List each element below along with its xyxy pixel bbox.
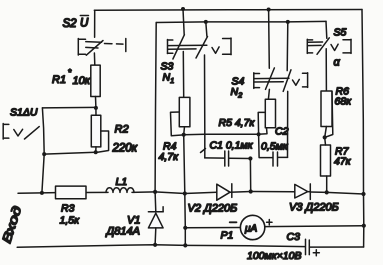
wire to S1 xyxy=(42,106,96,109)
node S4 top xyxy=(267,8,271,12)
wire R5 bottom xyxy=(259,128,267,135)
svg-text:68к: 68к xyxy=(335,96,353,108)
node V1 bottom xyxy=(153,243,157,247)
node right rail diode xyxy=(361,192,365,196)
svg-text:220к: 220к xyxy=(112,143,138,155)
label R7 47k xyxy=(334,146,352,168)
svg-text:4,7к: 4,7к xyxy=(159,151,180,163)
svg-text:Вход: Вход xyxy=(0,204,24,245)
node R2 bottom xyxy=(94,150,98,154)
resistor R6 xyxy=(321,91,332,127)
svg-text:Р1: Р1 xyxy=(221,230,234,242)
svg-text:100мк×10В: 100мк×10В xyxy=(247,250,302,262)
label V1 D814A xyxy=(105,215,141,238)
wire R4 tap xyxy=(171,112,184,136)
wire C3 right link xyxy=(310,246,364,248)
svg-text:S5: S5 xyxy=(334,27,347,39)
switch S4 xyxy=(254,10,308,92)
switch S1 xyxy=(3,124,39,140)
wire S1 vertical xyxy=(42,108,44,193)
switch S3 xyxy=(168,9,232,59)
wire R7 bottom xyxy=(326,176,328,192)
label plus C3 xyxy=(313,250,319,256)
wire R7 top xyxy=(324,137,327,145)
inductor L1 xyxy=(106,188,134,193)
svg-text:С3: С3 xyxy=(287,231,301,243)
svg-text:0,5мк: 0,5мк xyxy=(261,141,289,153)
node S3 top xyxy=(181,7,185,11)
capacitor C1 xyxy=(205,151,251,166)
svg-text:С1 0,1мк: С1 0,1мк xyxy=(210,140,254,152)
node meter wire xyxy=(183,226,187,230)
wire node to C2 xyxy=(259,134,273,157)
capacitor C2 xyxy=(273,91,288,166)
label R6 68k xyxy=(335,86,353,108)
wire R1 bottom xyxy=(95,97,97,108)
label R1*10k xyxy=(52,68,91,88)
wire right rail xyxy=(362,10,364,248)
node bottom rail xyxy=(183,243,187,247)
wire S3 right pole down xyxy=(206,22,207,36)
wire L1 to node xyxy=(132,191,155,194)
svg-text:R5 4,7к: R5 4,7к xyxy=(219,117,256,129)
wire S3 left pole to R4 xyxy=(182,52,184,98)
zener V1 xyxy=(148,192,163,245)
label S3 N1 xyxy=(161,61,175,86)
resistor R2 xyxy=(91,115,101,147)
wire V2 node to V3 xyxy=(251,191,295,193)
node R6-R7 xyxy=(323,135,327,139)
node R5 bottom xyxy=(257,132,261,136)
node S3 second bus xyxy=(204,20,208,24)
wire R2 hook xyxy=(98,131,109,152)
svg-text:1,5к: 1,5к xyxy=(60,215,81,227)
svg-text:N1: N1 xyxy=(163,72,175,86)
node input xyxy=(40,191,44,195)
svg-text:R1: R1 xyxy=(52,74,66,86)
resistor R5 xyxy=(265,99,275,128)
svg-text:R2: R2 xyxy=(115,124,129,136)
wire top bus xyxy=(94,9,362,12)
node S4 second bus xyxy=(286,20,290,24)
node C1 right xyxy=(248,156,252,160)
label S2 U xyxy=(63,16,90,31)
tick near C1 xyxy=(201,149,206,153)
wire input line xyxy=(18,192,56,195)
svg-text:С2: С2 xyxy=(275,126,289,138)
switch S5 xyxy=(307,21,351,54)
wire C1 node down xyxy=(249,159,251,192)
svg-text:N2: N2 xyxy=(231,86,244,100)
wire left-mid rail xyxy=(155,23,156,192)
wire R2 to S1 rail xyxy=(44,152,95,154)
node R7 bottom xyxy=(325,190,329,194)
wire R4 to R5 bus xyxy=(184,133,259,136)
label R3 1,5k xyxy=(60,203,81,227)
wire R2 bottom xyxy=(95,147,97,152)
wire diode row xyxy=(155,192,217,194)
wire R3 to L1 xyxy=(86,191,108,193)
wire S5 to R6 xyxy=(325,49,327,91)
resistor R1 xyxy=(91,65,100,96)
svg-text:Д814А: Д814А xyxy=(105,226,140,238)
resistor R3 xyxy=(56,186,87,199)
label C2 0,5mk xyxy=(261,126,289,153)
svg-text:R3: R3 xyxy=(61,203,75,215)
wire bottom rail xyxy=(17,245,305,248)
svg-text:S1ΔU: S1ΔU xyxy=(10,107,38,119)
svg-text:V3 Д220Б: V3 Д220Б xyxy=(289,202,339,214)
svg-text:10к: 10к xyxy=(73,75,91,87)
diode V3 xyxy=(295,184,364,200)
label S4 N2 xyxy=(231,76,245,100)
node R1-R2-S1 xyxy=(94,106,98,110)
svg-text:L1: L1 xyxy=(116,176,128,188)
label minus xyxy=(230,221,237,223)
label plus meter xyxy=(267,220,272,225)
svg-text:S2: S2 xyxy=(63,18,78,30)
meter P1 xyxy=(240,215,363,239)
wire S4 left to R5 xyxy=(268,89,269,99)
wire second bus xyxy=(156,21,326,22)
capacitor C3 xyxy=(306,239,310,254)
switch S2 xyxy=(78,10,126,65)
node V2-V3 xyxy=(249,189,253,193)
wire R4 node down xyxy=(184,135,186,246)
wire R2 top xyxy=(95,108,97,115)
svg-text:V2 Д220Б: V2 Д220Б xyxy=(188,203,238,215)
node meter right xyxy=(362,224,366,228)
wire R4 bottom xyxy=(183,127,186,135)
node S1 mid xyxy=(42,152,46,156)
svg-text:U: U xyxy=(80,18,89,30)
resistor R4 xyxy=(179,97,190,126)
svg-text:μА: μА xyxy=(244,224,257,235)
wire R6 bottom xyxy=(325,127,327,138)
node V2 wire crossing xyxy=(183,191,187,195)
label R4 4,7k xyxy=(159,141,180,164)
label R2 220k xyxy=(112,124,138,155)
svg-text:47к: 47к xyxy=(334,156,352,168)
svg-text:*: * xyxy=(68,68,72,78)
diode V2 xyxy=(217,184,251,200)
node R4 bottom xyxy=(182,133,186,137)
node L1-V1 xyxy=(153,190,157,194)
resistor R7 xyxy=(321,145,331,176)
wire R6 bypass xyxy=(325,92,333,138)
svg-text:α: α xyxy=(334,57,341,69)
wire meter line left xyxy=(185,227,240,229)
wire S3 right to C1 xyxy=(204,55,206,158)
wire R5 tap xyxy=(258,112,265,134)
